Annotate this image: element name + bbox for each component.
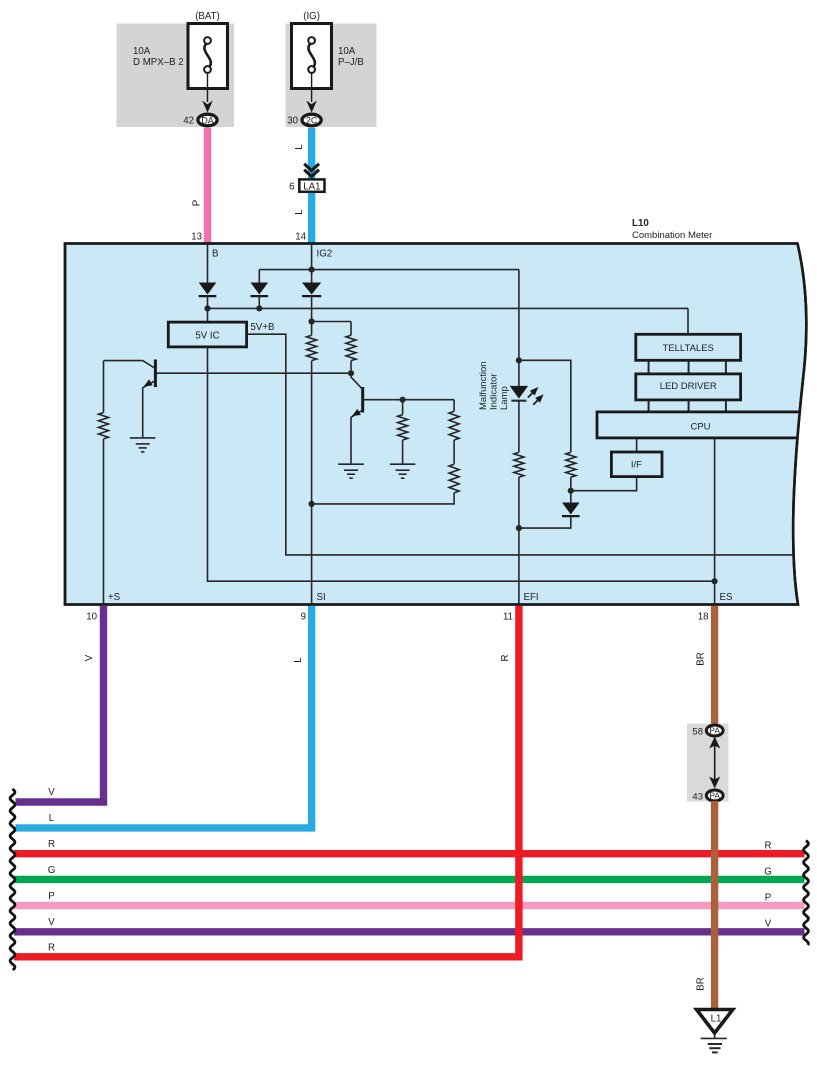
ground G2 (Q2 emitter) <box>338 464 364 478</box>
wire fuse 2C output <box>311 73 313 102</box>
ground point L1 <box>697 1010 733 1039</box>
fuse D MPX-B 2 box <box>188 24 228 89</box>
wire MIL to R7 branch <box>519 360 571 452</box>
svg-text:5V+B: 5V+B <box>251 322 275 333</box>
arrow into connector 2C <box>306 101 317 113</box>
wire BR (brown) from ES to PA <box>711 606 718 727</box>
svg-text:9: 9 <box>301 612 306 623</box>
svg-text:10A: 10A <box>338 46 356 57</box>
svg-text:P: P <box>48 891 54 902</box>
bus wire G (green) <box>14 876 805 883</box>
wire 5V+B output <box>247 334 796 555</box>
connector block PA (gray) <box>687 724 729 802</box>
svg-text:11: 11 <box>503 612 513 623</box>
resistor R3 <box>346 335 356 360</box>
wire P (pink) from DA to pin 13 <box>204 128 211 244</box>
resistor R1 <box>99 361 109 439</box>
diode D1 on B line <box>199 283 217 297</box>
node SI line bottom <box>309 501 315 507</box>
svg-text:Indicator: Indicator <box>489 374 500 410</box>
svg-text:P–J/B: P–J/B <box>338 57 364 68</box>
LED malfunction indicator lamp <box>510 385 546 407</box>
node MIL top <box>516 357 522 363</box>
wire D2 anode <box>258 270 260 284</box>
wire fuse DA output <box>207 73 209 102</box>
wire D3 to node <box>311 296 313 335</box>
fuse P-J/B symbol <box>308 37 315 73</box>
svg-text:PA: PA <box>709 791 720 801</box>
arrow pair between PA connectors <box>709 737 720 789</box>
svg-text:L: L <box>293 657 304 663</box>
combination meter L10 box <box>65 244 806 605</box>
node Q2 base / R4 <box>400 397 406 403</box>
svg-text:CPU: CPU <box>690 421 710 432</box>
svg-text:G: G <box>764 867 772 878</box>
svg-text:IG2: IG2 <box>317 249 333 260</box>
svg-text:30: 30 <box>287 116 298 127</box>
left continuation squiggle <box>10 789 15 970</box>
node Q2 collector / Q1 base <box>348 370 354 376</box>
I/F box <box>611 452 662 477</box>
combination meter border <box>65 244 806 605</box>
svg-text:ES: ES <box>720 592 733 603</box>
svg-text:G: G <box>48 865 56 876</box>
node at B/diode bus <box>204 305 210 311</box>
junction block P (gray) <box>286 24 377 128</box>
svg-text:Combination Meter: Combination Meter <box>632 230 712 241</box>
wire diode-bus horizontal <box>208 307 689 309</box>
svg-text:5V IC: 5V IC <box>195 331 219 342</box>
resistor R5 lower <box>312 464 460 504</box>
connector pin 42 DA <box>183 114 217 126</box>
fuse P-J/B box <box>292 24 332 89</box>
diode D2 <box>251 283 269 297</box>
wire R7 to D5 <box>570 477 572 503</box>
resistor R2 on SI line <box>307 335 317 360</box>
node ES <box>712 578 718 584</box>
svg-text:BR: BR <box>696 977 707 990</box>
wire R6 to EFI pin <box>518 477 520 606</box>
wire D2 cathode <box>258 296 260 308</box>
transistor Q1 <box>104 360 156 438</box>
CPU box <box>597 412 812 438</box>
right continuation squiggle <box>804 841 809 946</box>
connector pin 58 PA <box>692 725 723 737</box>
svg-text:10: 10 <box>86 612 97 623</box>
svg-text:V: V <box>48 787 55 798</box>
node D2 at bus <box>256 305 262 311</box>
svg-text:58: 58 <box>692 726 703 737</box>
svg-text:LA1: LA1 <box>303 181 320 192</box>
wire B vertical <box>207 244 209 284</box>
svg-text:6: 6 <box>289 182 294 193</box>
svg-text:43: 43 <box>692 791 703 802</box>
svg-text:P: P <box>192 200 203 206</box>
LED DRIVER box <box>636 374 741 400</box>
svg-text:D MPX–B 2: D MPX–B 2 <box>133 57 184 68</box>
svg-text:V: V <box>84 654 95 661</box>
wire CPU to I/F <box>636 438 638 452</box>
wire Q1 base <box>155 372 351 374</box>
svg-text:SI: SI <box>317 592 326 603</box>
wire Q2 base <box>363 399 454 401</box>
svg-text:BR: BR <box>696 652 707 665</box>
wire V (violet) from +S <box>16 606 104 802</box>
svg-text:V: V <box>765 919 772 930</box>
wire R3 to node <box>350 361 352 374</box>
svg-text:DA: DA <box>201 115 214 125</box>
svg-text:L: L <box>294 144 305 150</box>
svg-text:EFI: EFI <box>524 592 539 603</box>
wire IG2 vertical <box>311 244 313 284</box>
ground hatch L1 <box>701 1038 727 1052</box>
ground G1 (Q1 emitter) <box>130 438 156 452</box>
wire L (blue) from LA1 to pin 14 <box>308 193 315 244</box>
resistor R6 <box>514 452 524 477</box>
wire IG2 top horizontal <box>259 269 519 271</box>
connector 6 LA1 <box>289 179 324 192</box>
wire LED to R6 <box>518 400 520 452</box>
svg-text:I/F: I/F <box>631 460 642 471</box>
svg-text:B: B <box>212 249 218 260</box>
wire MIL feed vertical <box>518 270 520 387</box>
svg-text:+S: +S <box>108 592 121 603</box>
wire CPU to ES pin <box>714 438 716 606</box>
svg-text:18: 18 <box>698 612 709 623</box>
svg-text:V: V <box>48 917 55 928</box>
svg-text:R: R <box>48 943 55 954</box>
svg-text:L1: L1 <box>711 1014 722 1025</box>
ground G3 (R4) <box>390 464 416 478</box>
node EFI bottom <box>516 525 522 531</box>
svg-text:LED DRIVER: LED DRIVER <box>660 381 717 392</box>
connectors TELLTALES to LED DRIVER <box>649 360 726 374</box>
svg-text:PA: PA <box>709 726 720 736</box>
bus wire R (red) <box>14 850 805 857</box>
wire R (red) from EFI <box>14 606 519 957</box>
svg-text:(BAT): (BAT) <box>195 11 220 22</box>
transistor Q2 <box>350 373 363 464</box>
5V IC box <box>168 322 246 347</box>
diode D3 on IG2 line <box>302 283 321 297</box>
wire D5 to EFI node <box>519 516 571 528</box>
wire bus to TELLTALES <box>687 308 689 334</box>
connectors LED DRIVER to CPU <box>649 400 726 412</box>
wire SI line long vertical <box>311 361 313 606</box>
bus wire P (pink) <box>14 902 805 909</box>
fuse D MPX-B 2 symbol <box>204 37 211 73</box>
bus wire V (violet) <box>14 928 805 935</box>
svg-text:Malfunction: Malfunction <box>478 361 489 410</box>
svg-text:R: R <box>765 841 772 852</box>
svg-text:L: L <box>49 813 55 824</box>
svg-text:14: 14 <box>295 232 306 243</box>
svg-text:10A: 10A <box>133 46 151 57</box>
svg-text:(IG): (IG) <box>303 11 320 22</box>
node IG2 branch <box>309 267 315 273</box>
chevron arrows into LA1 <box>304 164 319 177</box>
resistor R5 upper <box>449 400 459 465</box>
svg-text:L: L <box>294 209 305 215</box>
wire BR (brown) from PA to ground <box>711 801 718 1008</box>
wire L (blue) from SI <box>16 606 312 828</box>
wire L (blue) from 2C to LA1 <box>308 128 315 179</box>
wire 5V IC bottom to ES bus <box>208 347 715 581</box>
arrow into connector DA <box>202 101 213 113</box>
resistor R7 <box>566 452 576 477</box>
resistor R4 <box>398 400 408 465</box>
wire D1 to node <box>207 296 209 322</box>
junction block D (gray) <box>117 24 235 128</box>
wire branch to R3 <box>312 321 351 323</box>
connector pin 30 2C <box>287 114 321 126</box>
svg-text:L10: L10 <box>632 218 649 229</box>
node I/F branch <box>568 488 574 494</box>
svg-text:TELLTALES: TELLTALES <box>662 343 713 354</box>
svg-text:R: R <box>500 655 511 662</box>
wire R1 to +S pin <box>103 439 105 606</box>
svg-text:Lamp: Lamp <box>499 386 510 410</box>
svg-text:R: R <box>48 839 55 850</box>
wire I/F to node <box>571 476 637 491</box>
node resistor divider top <box>309 318 315 324</box>
svg-text:2C: 2C <box>306 115 318 125</box>
svg-text:42: 42 <box>183 116 194 127</box>
svg-text:13: 13 <box>191 232 202 243</box>
diode D5 <box>562 503 580 517</box>
connector pin 43 PA <box>692 790 723 802</box>
label Malfunction Indicator Lamp <box>478 361 510 410</box>
TELLTALES box <box>636 334 741 360</box>
svg-text:P: P <box>765 893 771 904</box>
